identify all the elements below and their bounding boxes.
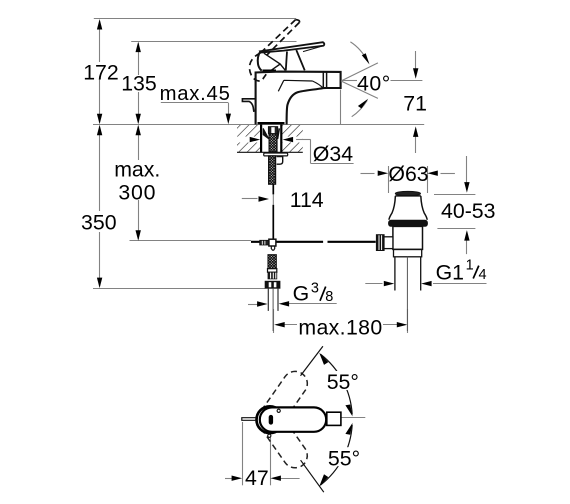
svg-text:max.: max. — [114, 158, 160, 182]
side inlet knurled cap — [376, 235, 384, 251]
svg-text:40°: 40° — [357, 71, 391, 95]
cone wedge right — [278, 128, 280, 139]
arrow 172 top — [97, 19, 102, 30]
arrow max300 bottom — [136, 230, 141, 241]
svg-text:G1: G1 — [436, 261, 464, 285]
arrow 350 top — [97, 125, 102, 136]
slash of G 3/8 — [320, 287, 326, 301]
bg 55 lower — [327, 447, 360, 466]
deck top long line — [93, 124, 424, 126]
spout inner contour — [278, 80, 323, 91]
114 leader — [242, 198, 258, 200]
arrow max300 top — [136, 125, 141, 136]
hose hex nut G3/8 — [265, 281, 280, 288]
arrow 40-53 bottom — [464, 230, 469, 241]
O63 extension lines — [388, 166, 390, 193]
deck hatch left — [237, 125, 261, 153]
svg-text:55°: 55° — [327, 370, 359, 394]
40-53 extension lines — [434, 194, 475, 196]
svg-text:max.180: max.180 — [298, 316, 382, 340]
arrow 71 bottom — [413, 126, 418, 136]
aerator verticals — [322, 72, 324, 88]
drain trumpet — [389, 196, 427, 220]
top view aerator — [327, 412, 341, 425]
top view lever mark — [269, 415, 273, 425]
47 extension lines — [242, 422, 244, 485]
hose braid — [268, 255, 276, 269]
ref line 135 level — [131, 41, 296, 43]
svg-text:40-53: 40-53 — [441, 199, 495, 223]
lever neck — [286, 50, 305, 70]
svg-text:4: 4 — [479, 267, 487, 283]
hose collar — [268, 269, 277, 273]
47 dim line — [225, 478, 237, 480]
ref line top (172 level) — [94, 18, 296, 20]
svg-text:47: 47 — [245, 466, 269, 490]
svg-text:Ø34: Ø34 — [313, 142, 353, 166]
svg-text:55°: 55° — [328, 446, 360, 470]
deck bottom line — [237, 151, 303, 153]
arrow 350 bottom — [97, 278, 102, 289]
55deg arc upper — [320, 354, 352, 414]
top view handle capsule — [260, 407, 326, 431]
arrow O34 left — [250, 137, 261, 142]
top view centerline — [341, 417, 365, 419]
arrow max45 down — [226, 114, 231, 125]
55deg radius line upper — [301, 346, 323, 376]
drain side inlet — [384, 237, 393, 249]
top view left stub — [242, 418, 256, 421]
arrow 135 bottom — [136, 114, 141, 125]
threaded shank upper — [269, 134, 277, 152]
shank top collar — [269, 127, 278, 134]
top view base circle — [257, 406, 284, 433]
rod guide tab — [277, 157, 283, 165]
top view dashed handle upper — [258, 371, 308, 431]
svg-text:114: 114 — [290, 188, 324, 212]
arrow 71 top — [413, 68, 418, 79]
40 deg centerline — [341, 80, 357, 82]
rod clamp screw — [260, 240, 269, 245]
svg-text:71: 71 — [403, 91, 427, 115]
drain body — [393, 226, 423, 249]
ref line max300 bottom (popup rod level) — [130, 240, 252, 242]
bg 55 upper — [326, 371, 361, 390]
hose centerline — [272, 288, 274, 331]
pop-up rod vertical — [272, 184, 274, 194]
pop-up knob — [242, 99, 255, 112]
G3/8 leader — [248, 304, 263, 306]
svg-text:135: 135 — [121, 72, 157, 96]
svg-text:max.45: max.45 — [160, 83, 231, 105]
svg-text:350: 350 — [81, 210, 117, 234]
top view screw dot bottom — [268, 434, 271, 437]
clamp stub — [271, 246, 274, 250]
ref line 350 bottom (hose nut level) — [93, 288, 265, 290]
cone wedge left — [263, 128, 269, 139]
max.180 dim line — [276, 324, 297, 326]
svg-text:8: 8 — [325, 289, 333, 305]
top view dashed handle lower — [258, 407, 308, 467]
deck hole right edge — [280, 125, 282, 153]
svg-text:G: G — [293, 282, 310, 306]
arrow G1-1/4 left — [384, 281, 395, 286]
40deg arc lower — [352, 100, 368, 116]
handle base dome — [258, 51, 262, 71]
arrow G3/8 left — [257, 301, 268, 306]
body base gasket — [258, 122, 285, 124]
arrow O63 left — [378, 171, 389, 176]
arrow max180 left — [274, 322, 285, 327]
faucet body outline — [256, 72, 341, 125]
drain centerline — [406, 257, 408, 331]
O34 leader — [296, 139, 311, 141]
deck hole left edge — [260, 125, 262, 153]
arrow max180 right — [397, 322, 408, 327]
G1 1/4 leader — [365, 283, 382, 285]
arrow 40-53 top — [464, 182, 469, 193]
rod clamp block — [269, 239, 276, 246]
aerator extension line — [340, 90, 342, 125]
O63 dim line — [361, 173, 375, 175]
arrow G1-1/4 right — [421, 281, 432, 286]
arrow 47 left — [232, 476, 243, 481]
hatch gap for O34 arrows — [231, 137, 260, 143]
max.180 extension lines — [273, 309, 275, 333]
G3/8 thread lines — [267, 288, 269, 311]
55deg radius line lower — [301, 460, 324, 492]
dashed raised lever — [249, 20, 299, 81]
deck hatch right — [282, 125, 303, 153]
svg-text:Ø63: Ø63 — [388, 162, 428, 186]
svg-text:300: 300 — [118, 181, 156, 205]
arrow O63 right — [427, 171, 438, 176]
lever solid — [261, 42, 325, 52]
max.45 leader — [161, 102, 229, 104]
55deg arc lower — [320, 425, 352, 485]
40deg arc upper — [350, 42, 368, 62]
hose knurl — [268, 272, 277, 279]
arrow 135 top — [136, 42, 141, 53]
top view screw dot top — [277, 409, 280, 412]
dome base dark band — [263, 70, 277, 73]
drain plug cap — [395, 191, 420, 195]
pop-up rod horizontal — [251, 241, 323, 243]
dim line 172/350 vertical — [99, 21, 101, 62]
drain o-ring — [389, 220, 428, 226]
arrow G3/8 right — [279, 301, 290, 306]
40deg cone rays — [341, 63, 378, 81]
40-53 dim vertical — [466, 156, 468, 190]
lever underside bevel — [303, 46, 323, 52]
mounting flange — [264, 153, 288, 156]
arrow 114 — [259, 196, 270, 201]
arrow O34 right — [283, 137, 294, 142]
svg-text:172: 172 — [83, 60, 119, 84]
slash of G1 1/4 — [473, 266, 479, 279]
dim line 135/max300 vertical — [138, 43, 140, 75]
arrow 47 right — [270, 476, 281, 481]
drain body groove — [394, 249, 422, 256]
threaded shank lower — [269, 156, 276, 184]
svg-text:1: 1 — [466, 257, 474, 273]
drain tailpipe — [394, 257, 396, 291]
71 dim vertical — [415, 51, 417, 76]
svg-text:3: 3 — [311, 280, 319, 296]
arrow 172 bottom — [97, 114, 102, 125]
